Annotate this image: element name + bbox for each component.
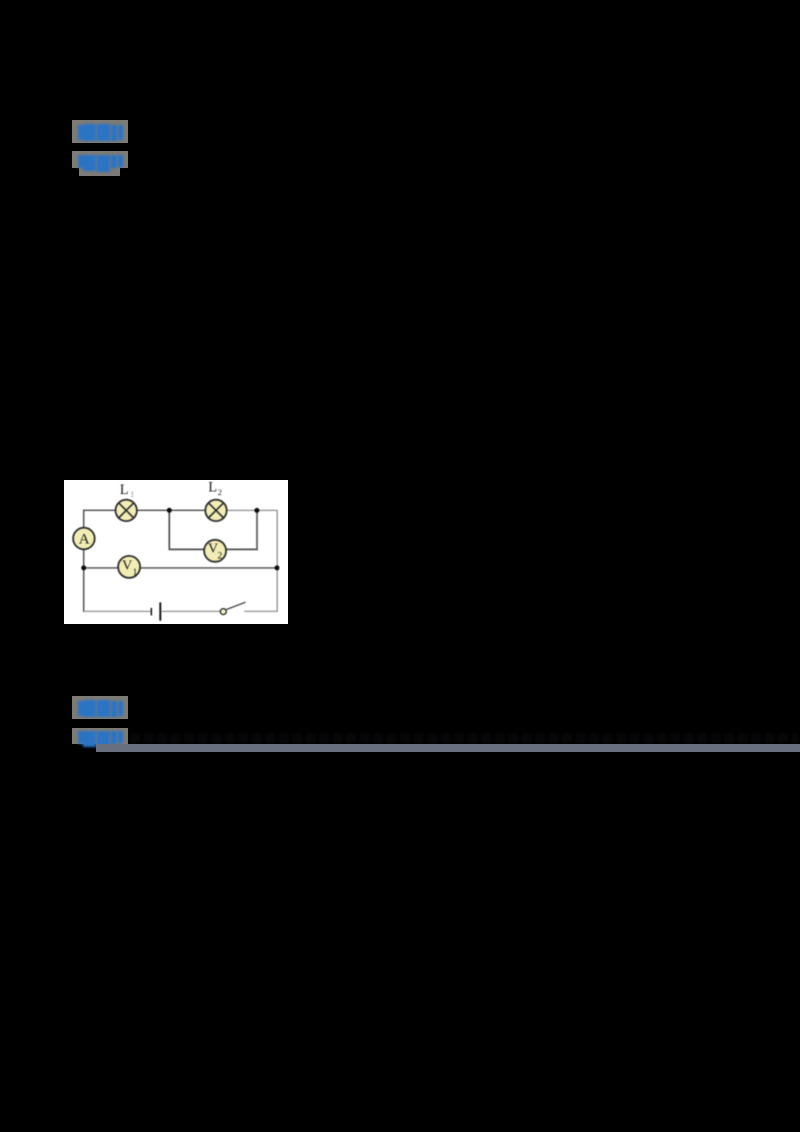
wire: right rail vertical	[276, 510, 278, 611]
wire: V2 branch right vertical	[256, 510, 258, 550]
svg-text:L: L	[208, 480, 217, 496]
wire: V2 branch bottom horizontal right of V2	[226, 548, 258, 550]
lamp L1	[116, 499, 137, 520]
analysis label highlight box 4	[72, 728, 128, 744]
faint dark text line above the long bar	[130, 733, 798, 743]
wire: top horizontal L1 to L2	[137, 509, 206, 511]
svg-text:L: L	[120, 482, 129, 498]
wire: left rail vertical (above ammeter)	[83, 509, 85, 527]
node: junction dot V1 row left	[81, 565, 86, 570]
svg-text:2: 2	[218, 487, 222, 497]
wire: battery to switch	[162, 610, 221, 612]
node: junction dot top right of L2	[254, 508, 259, 513]
voltmeter V1	[118, 556, 140, 578]
wire: V1 row horizontal left segment	[84, 567, 119, 569]
battery: long positive plate	[159, 602, 161, 620]
wire: switch to right rail	[244, 610, 277, 612]
analysis label highlight box 2 lower extension	[79, 168, 120, 176]
answer label blue text 1	[78, 124, 123, 141]
analysis label highlight box 2	[72, 151, 128, 167]
wire: V2 branch left vertical	[168, 510, 170, 549]
wire: V1 row horizontal right segment	[140, 567, 277, 569]
voltmeter V2	[204, 539, 226, 561]
svg-text:V: V	[122, 558, 132, 573]
circuit panel (white)	[64, 480, 288, 625]
answer label blue text 3	[78, 700, 123, 717]
svg-text:1: 1	[130, 489, 134, 498]
wire: V2 branch bottom horizontal left of V2	[169, 548, 205, 550]
long gray highlight bar	[96, 744, 800, 752]
battery: short negative plate	[150, 608, 152, 615]
node: junction dot top between L1 and L2	[167, 507, 172, 512]
lamp L2	[205, 499, 226, 520]
wire: top left horizontal from left rail to lamp L1	[84, 509, 116, 511]
svg-text:2: 2	[217, 551, 222, 561]
wire: top horizontal L2 to right corner	[227, 509, 278, 511]
node: junction dot V1 row right	[274, 565, 279, 570]
analysis label blue text 2	[78, 155, 123, 172]
analysis label blue text 4	[78, 731, 123, 748]
svg-text:1: 1	[133, 568, 138, 578]
answer label highlight box 1	[72, 120, 128, 144]
wire: left rail vertical (below ammeter)	[83, 549, 85, 612]
ammeter A	[73, 527, 95, 549]
wire: bottom left horizontal to battery	[84, 610, 150, 612]
answer label highlight box 3	[72, 696, 128, 720]
switch blade	[226, 602, 245, 609]
svg-text:A: A	[79, 531, 90, 547]
switch pivot	[220, 608, 226, 614]
